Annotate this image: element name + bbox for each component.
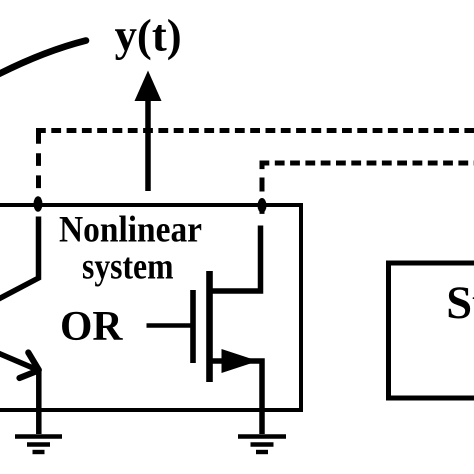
- svg-text:OR: OR: [60, 303, 124, 350]
- ground right: [238, 437, 286, 453]
- junction dot right: [258, 198, 267, 213]
- output arrow y(t): [135, 71, 162, 192]
- ground left: [15, 437, 62, 453]
- dashed feedback wire upper vertical: [36, 131, 41, 208]
- transistor M1 MOSFET source lead: [210, 361, 263, 434]
- transistor Q1 BJT emitter arrow barb upper: [28, 353, 39, 371]
- leader arc: [0, 41, 86, 77]
- transistor M1 MOSFET channel bar: [206, 271, 213, 382]
- transistor Q1 BJT emitter arrow barb lower: [20, 372, 36, 379]
- svg-text:y(t): y(t): [115, 10, 182, 60]
- transistor M1 MOSFET drain lead: [210, 226, 261, 292]
- box Nonlinear system: [0, 205, 301, 410]
- dashed feedback wire upper horizontal: [36, 128, 474, 133]
- dashed feedback wire lower vertical: [260, 163, 265, 214]
- svg-text:St: St: [446, 278, 474, 329]
- transistor Q1 BJT emitter wire: [0, 351, 39, 435]
- transistor M1 MOSFET gate lead: [147, 323, 191, 328]
- box Stimulus (clipped right): [389, 263, 474, 398]
- svg-text:system: system: [82, 246, 174, 287]
- transistor Q1 BJT collector wire: [0, 217, 39, 303]
- dashed feedback wire lower horizontal: [260, 161, 474, 166]
- transistor M1 MOSFET source arrow: [222, 349, 259, 373]
- junction dot left: [34, 196, 43, 211]
- svg-text:Nonlinear: Nonlinear: [59, 209, 202, 250]
- transistor M1 MOSFET gate bar: [190, 290, 196, 363]
